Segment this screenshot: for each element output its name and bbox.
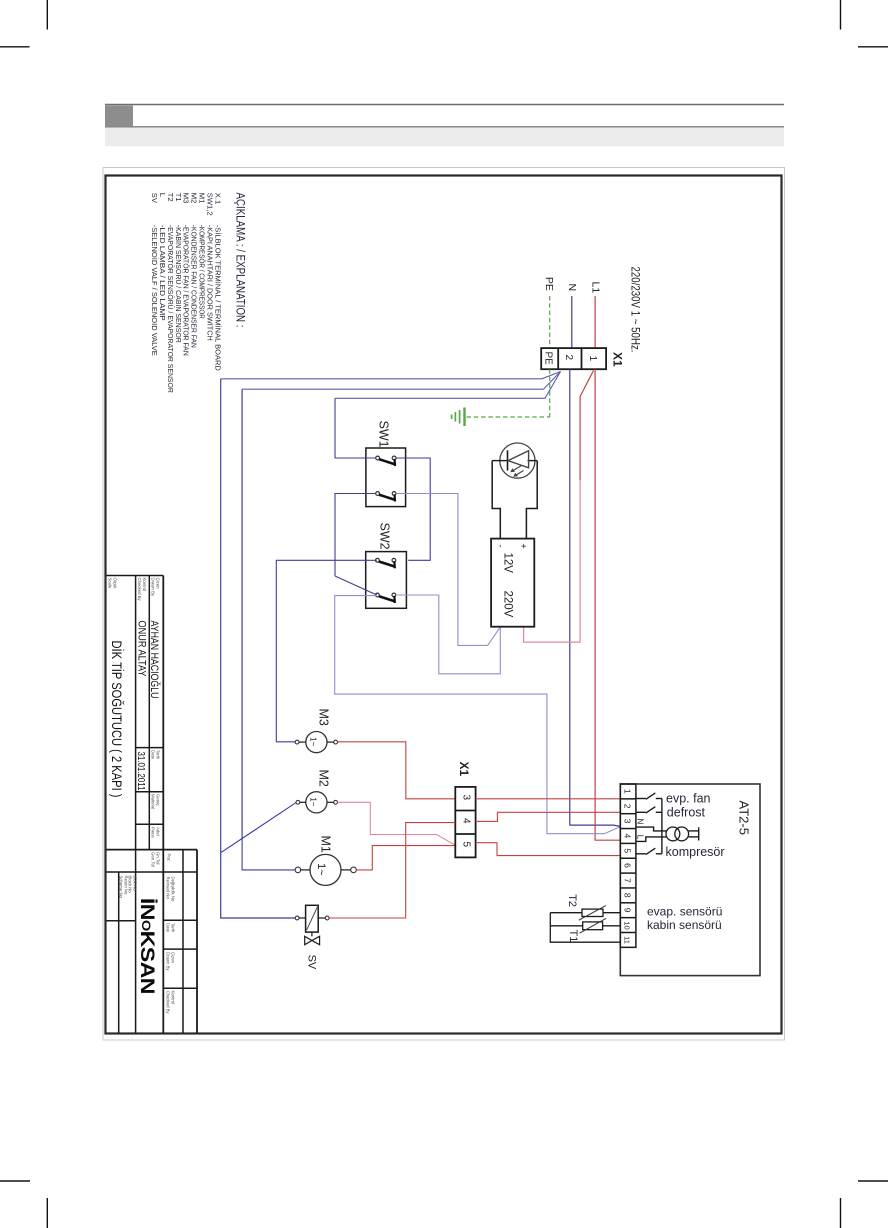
solenoid valve SV (295, 905, 329, 970)
svg-text:L1: L1 (590, 282, 602, 294)
motor M2 (condenser fan) (296, 770, 338, 813)
svg-text:Drawn By: Drawn By (151, 578, 156, 597)
svg-text:2: 2 (623, 804, 633, 809)
switch SW1 (door switch 1) (366, 421, 406, 507)
AT2-5 internal relay contact (kompresor) (636, 848, 662, 854)
faint scan edge around sheet (103, 168, 785, 1041)
svg-text:1~: 1~ (308, 737, 317, 746)
svg-text:X1: X1 (611, 352, 625, 367)
label N (566, 284, 578, 292)
label X1 (strip 3-5) (457, 762, 471, 777)
AT2-5 internal transformer (636, 827, 699, 841)
svg-text:4: 4 (623, 833, 633, 838)
label L1 (590, 282, 602, 294)
svg-text:Revised No: Revised No (166, 877, 171, 900)
wire SW2 pole1 left to M3 rail (276, 560, 377, 742)
wire M1 red to X1 cell 5 (356, 846, 455, 870)
svg-text:N: N (635, 819, 644, 825)
wires sensors to AT2-5 cells 9,10,11 (550, 913, 620, 943)
wire SW1 pole2 left down / diagonal to SW2 pole2 (335, 494, 377, 596)
wire N main down to controller (570, 369, 621, 826)
svg-text:10: 10 (623, 921, 632, 929)
svg-text:+: + (519, 544, 529, 549)
label L (internal) (635, 835, 644, 840)
lamp yoke legs into adapter (492, 461, 537, 539)
svg-text:1~: 1~ (315, 863, 327, 876)
wire SW1 pole2 right to adapter (lamp feed, violet) (396, 494, 500, 646)
wire L1 branch to adapter (524, 371, 594, 643)
wire L1 down to controller (595, 369, 620, 840)
svg-text:5: 5 (623, 848, 633, 853)
ground symbol (earth) (452, 408, 465, 427)
svg-text:Poz: Poz (167, 854, 172, 861)
wire N rail A (to SV) (220, 379, 222, 853)
wire N to SW1 pole1 left (335, 398, 376, 458)
svg-text:AYHAN HACIOĞLU: AYHAN HACIOĞLU (148, 621, 161, 699)
svg-text:Scheme No: Scheme No (119, 876, 124, 899)
wire N supply (571, 296, 573, 348)
lamp L (LED) circle (492, 443, 537, 478)
svg-text:M1: M1 (319, 836, 333, 853)
svg-text:Gen.Tol: Gen.Tol (151, 852, 156, 867)
svg-text:Date: Date (151, 750, 156, 760)
label N (internal) (635, 819, 644, 825)
motor M3 (evaporator fan) (295, 709, 337, 753)
svg-text:Checked By: Checked By (166, 991, 171, 1015)
svg-text:SW2: SW2 (378, 523, 392, 550)
svg-text:Drawn By: Drawn By (166, 952, 171, 971)
svg-text:9: 9 (623, 908, 633, 913)
title block names and title (109, 621, 161, 798)
svg-text:İNOKSAN: İNOKSAN (136, 898, 157, 994)
crop mark top-right (841, 0, 888, 47)
wire M2 pink to X1 cell 5 (338, 802, 456, 845)
svg-text:evap. sensörü: evap. sensörü (647, 905, 722, 919)
svg-text:220/230V 1 ~ 50Hz.: 220/230V 1 ~ 50Hz. (629, 267, 643, 353)
svg-text:Checked By: Checked By (137, 578, 142, 602)
svg-text:N: N (566, 284, 578, 292)
adapter 12V/220V box (491, 539, 534, 627)
crop mark top-left (0, 0, 47, 47)
svg-text:X1: X1 (457, 762, 471, 777)
svg-text:31.01.2011: 31.01.2011 (135, 752, 147, 791)
label 220/230V 1 ~ 50Hz. (629, 267, 643, 353)
label kompresor (666, 845, 725, 859)
svg-text:1: 1 (623, 789, 633, 794)
drawing frame border (106, 176, 782, 1034)
wire SW1 pole1 to SW2 pole1 (right side) (396, 458, 430, 560)
AT2-5 internal relay contact (evp. fan) (636, 793, 662, 799)
wire N to SV left (221, 853, 296, 918)
terminal block X1 (cells 3,4,5) (455, 787, 475, 858)
svg-text:7: 7 (623, 878, 633, 883)
svg-text:DİK TİP SOĞUTUCU ( 2 KAPI ): DİK TİP SOĞUTUCU ( 2 KAPI ) (109, 641, 124, 798)
svg-text:Date: Date (166, 923, 171, 933)
svg-text:T1: T1 (567, 930, 579, 943)
crop mark bottom-left (0, 1181, 47, 1228)
svg-text:Material: Material (151, 794, 156, 809)
title block table lines (107, 576, 198, 1034)
wire X1-5 to AT2-5 cell 5 (476, 843, 621, 856)
svg-text:kabin sensörü: kabin sensörü (647, 918, 722, 932)
wire X1-4 to solenoid valve (329, 823, 455, 918)
wire N rail B (to M1/M2) (241, 389, 243, 838)
AT2-5 internal relay bus (661, 799, 663, 854)
svg-text:5: 5 (461, 842, 472, 848)
wire PE below block to ground (dashed green) (467, 369, 550, 417)
svg-text:6: 6 (623, 863, 633, 868)
svg-text:AÇIKLAMA : / EXPLANATION :: AÇIKLAMA : / EXPLANATION : (234, 193, 246, 328)
svg-text:kompresör: kompresör (666, 845, 725, 859)
wire X1-3 to AT2-5 cell 1 (476, 798, 621, 800)
terminal block X1 (supply: cells PE,2,1) (541, 348, 606, 369)
svg-text:1: 1 (587, 356, 598, 362)
svg-text:3: 3 (623, 819, 633, 824)
page header bars (105, 105, 784, 147)
svg-text:Scale: Scale (108, 578, 113, 589)
label evap. sensoru (647, 905, 722, 919)
svg-text:SV: SV (150, 193, 159, 204)
svg-text:Piece: Piece (151, 827, 156, 838)
svg-text:-SELENOİD VALF / SOLENOID VALV: -SELENOİD VALF / SOLENOID VALVE (150, 225, 159, 356)
svg-text:8: 8 (623, 893, 633, 898)
label evp. fan (666, 792, 711, 806)
INOKSAN logo (136, 898, 157, 994)
switch SW2 (door switch 2) (366, 523, 407, 609)
wire M3 red to X1 cell 3 (338, 742, 456, 799)
svg-text:3: 3 (461, 795, 472, 801)
sensor T1 (cabin) (567, 918, 606, 942)
sensor T2 (evaporator) (566, 894, 606, 920)
label PE (543, 277, 555, 291)
svg-text:T2: T2 (566, 894, 578, 907)
wire PE supply (dashed green) (549, 296, 551, 348)
svg-text:PE: PE (543, 352, 554, 366)
wire L1 supply (594, 296, 596, 348)
controller AT2-5 box (620, 784, 760, 976)
legend AÇIKLAMA / EXPLANATION (150, 193, 245, 394)
svg-text:SW1: SW1 (377, 421, 391, 448)
label kabin sensoru (647, 918, 722, 932)
crop mark bottom-right (841, 1181, 888, 1228)
motor M1 (compressor) (295, 836, 356, 886)
svg-text:11: 11 (623, 936, 632, 944)
label X1 (supply block) (611, 352, 625, 367)
label AT2-5 (737, 801, 752, 835)
wire N diagonals to M2 and M1 (221, 803, 296, 870)
AT2-5 internal relay contact (defrost) (636, 807, 662, 813)
svg-text:12V: 12V (502, 553, 514, 574)
svg-text:L: L (635, 835, 644, 840)
wire SW2 pole2 left to N common (violet) (335, 596, 621, 834)
wire SW2 pole2 right to adapter (violet) (397, 595, 500, 674)
svg-text:evp. fan: evp. fan (666, 792, 711, 806)
label defrost (667, 805, 706, 819)
svg-text:ONUR ALTAY: ONUR ALTAY (136, 621, 148, 678)
svg-text:PE: PE (543, 277, 555, 291)
svg-text:220V: 220V (502, 591, 514, 618)
svg-text:2: 2 (563, 355, 574, 361)
title block small labels (108, 578, 176, 1015)
wire X1-4 to AT2-5 cell 2 (476, 812, 621, 821)
wire N fan to left rails (221, 372, 561, 399)
svg-text:M3: M3 (317, 709, 331, 726)
svg-text:AT2-5: AT2-5 (737, 801, 752, 835)
AT2-5 terminal strip cells 1-11 (620, 784, 636, 947)
svg-text:Block No: Block No (128, 876, 133, 894)
svg-text:SV: SV (305, 955, 317, 970)
svg-text:4: 4 (461, 818, 472, 824)
svg-text:1~: 1~ (308, 797, 317, 806)
svg-text:M2: M2 (317, 770, 331, 787)
svg-text:-: - (496, 545, 506, 548)
svg-text:defrost: defrost (667, 805, 706, 819)
